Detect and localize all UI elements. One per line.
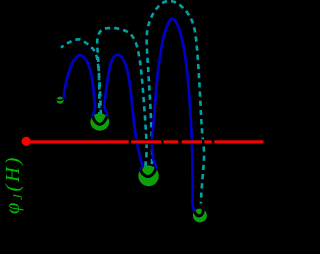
svg-text:φJ(H): φJ(H) — [2, 155, 25, 214]
